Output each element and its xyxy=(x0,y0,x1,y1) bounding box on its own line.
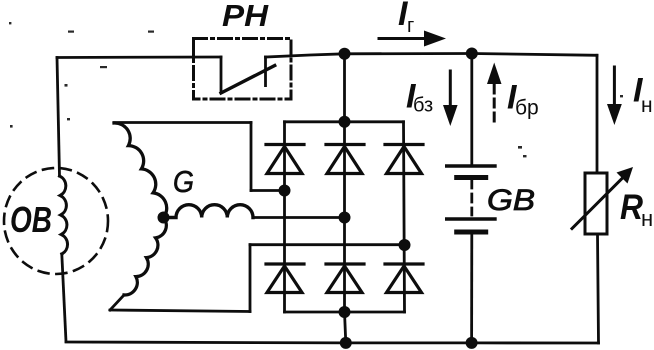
wire: right vertical conductor (load branch) xyxy=(596,55,599,173)
svg-text:бз: бз xyxy=(413,95,433,117)
node: bottom bus / column 2 xyxy=(340,337,352,349)
svg-text:г: г xyxy=(407,15,414,37)
node: negative rail / column 2 xyxy=(339,306,351,318)
wire: phase C slant lead xyxy=(110,295,124,310)
load resistor Rn body xyxy=(585,173,607,234)
svg-text:н: н xyxy=(641,94,653,117)
diode VD2 (column 2 top) xyxy=(326,145,364,174)
wire: top bus left segment xyxy=(57,56,221,59)
diode VD4 (column 1 bottom) xyxy=(266,264,304,293)
generator stator bottom phase winding xyxy=(124,218,166,296)
node: column 3 phase tap xyxy=(399,239,411,251)
node: generator star point xyxy=(158,212,170,224)
PH contact right lead xyxy=(264,57,267,86)
svg-text:ОВ: ОВ xyxy=(10,199,52,240)
diode VD6 (column 3 bottom) xyxy=(385,264,423,293)
node: bottom bus / battery branch xyxy=(466,337,478,349)
wire: right vertical conductor lower xyxy=(598,234,599,343)
rotor boundary dashed circle xyxy=(4,168,108,274)
wire: battery branch upper xyxy=(470,54,473,165)
node: column 1 phase tap xyxy=(279,185,291,197)
wire: bridge column 2 lower link to bottom bus xyxy=(345,312,346,343)
battery GB plate 1 long xyxy=(447,164,495,167)
current arrow Ig xyxy=(379,31,446,47)
svg-text:GB: GB xyxy=(487,184,535,217)
regulator PH box (dash-dot) xyxy=(194,39,292,100)
generator stator middle phase winding (horizontal coil) xyxy=(164,205,254,218)
wire: bridge column 1 xyxy=(283,122,286,312)
wire: bridge column 2 upper link to bus xyxy=(343,54,346,122)
wire: bridge negative rail xyxy=(285,311,405,314)
current arrow Ibr dashed (battery discharge) xyxy=(487,63,502,122)
wire: bottom bus xyxy=(66,342,599,343)
field winding OB coil xyxy=(60,176,68,254)
wire: top bus right segment xyxy=(266,54,598,58)
wire: left vertical conductor lower part xyxy=(62,254,66,342)
diode VD1 (column 1 top) xyxy=(266,145,304,174)
wire: phase B to bridge column 2 xyxy=(253,216,345,219)
wire: battery branch lower xyxy=(470,234,473,343)
diode VD5 (column 2 bottom) xyxy=(326,264,364,293)
node: column 2 phase tap xyxy=(339,212,351,224)
wire: bridge column 3 xyxy=(404,122,405,312)
wire: phase C bottom lead xyxy=(110,310,250,312)
wire: phase A to bridge column 1 xyxy=(251,189,285,192)
current arrow In (load) xyxy=(607,67,622,125)
generator stator top phase winding xyxy=(114,123,167,218)
wire: battery dashed middle (omitted cells) xyxy=(470,180,473,215)
diode VD3 (column 3 top) xyxy=(385,145,423,174)
svg-text:G: G xyxy=(173,164,194,199)
wire: bridge positive rail xyxy=(285,120,404,123)
battery GB plate 2 long xyxy=(447,217,495,220)
wire: phase A top lead xyxy=(114,121,251,124)
current arrow Ibz (battery charge) xyxy=(443,71,458,126)
svg-text:н: н xyxy=(641,206,653,231)
load resistor Rn adjustment arrow xyxy=(572,167,633,229)
scan specks (noise) xyxy=(9,22,623,157)
svg-text:бр: бр xyxy=(515,97,539,120)
wire: phase C riser xyxy=(249,245,252,312)
battery GB plate 2 short xyxy=(457,230,486,235)
wire: phase A drop xyxy=(250,123,253,191)
svg-text:РН: РН xyxy=(222,0,269,33)
wire: bridge column 2 xyxy=(343,122,346,312)
wire: left vertical conductor xyxy=(57,58,60,177)
node: positive rail / column 2 xyxy=(339,116,351,128)
wire: phase C to bridge column 3 xyxy=(250,243,405,246)
node: top bus / column 2 xyxy=(339,48,351,60)
battery GB plate 1 short xyxy=(457,175,486,180)
PH contact blade (diagonal) xyxy=(221,66,275,94)
PH contact left lead xyxy=(220,57,223,92)
node: top bus / battery branch xyxy=(466,48,478,60)
